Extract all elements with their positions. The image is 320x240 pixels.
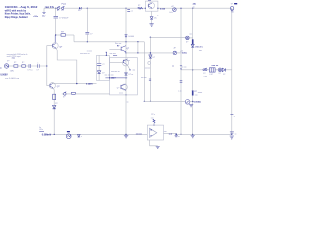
- diode D2: [53, 103, 58, 109]
- svg-text:xx xx: xx xx: [119, 93, 123, 95]
- wire Q1 base riser: [47, 46, 53, 86]
- svg-text:0.0000: 0.0000: [128, 36, 134, 38]
- svg-text:-24: -24: [180, 51, 183, 53]
- node j150-101: [150, 101, 151, 102]
- probe tick v181: [180, 66, 187, 70]
- diode D7 on rail: [78, 135, 82, 138]
- ground g-192: [191, 135, 195, 137]
- svg-text:xx: xx: [235, 134, 237, 136]
- wire Q2 emitter chain: [52, 88, 55, 134]
- node rail-spine: [125, 8, 126, 9]
- wire input: [9, 65, 14, 67]
- probe out: [175, 136, 180, 138]
- svg-text:0.000: 0.000: [160, 8, 166, 10]
- capacitor C2: [85, 8, 92, 42]
- svg-text:V?: V?: [7, 61, 9, 63]
- lamp DS2: [218, 68, 222, 75]
- svg-text:xx xxx: xx xxx: [145, 67, 150, 69]
- tick v232 mid: [230, 114, 234, 118]
- svg-text:R?: R?: [55, 103, 57, 105]
- svg-text:D?: D?: [223, 74, 225, 76]
- wire Q2 collector to bus: [52, 83, 96, 84]
- node j150-37: [150, 37, 151, 38]
- svg-text:A?: A?: [172, 5, 174, 8]
- node out-rail: [175, 133, 177, 135]
- svg-text:R?: R?: [194, 91, 196, 93]
- svg-text:D?: D?: [186, 42, 188, 44]
- meter M1: [169, 5, 176, 14]
- svg-text:C? 1u: C? 1u: [27, 70, 32, 72]
- svg-text:D? xx: D? xx: [129, 74, 134, 76]
- svg-text:1kHz: 1kHz: [10, 71, 14, 73]
- wire top rail left: [44, 7, 57, 9]
- capacitor on v181: [178, 81, 182, 93]
- svg-text:xxx: xxx: [189, 33, 192, 35]
- wire chain y70: [181, 69, 232, 71]
- svg-text:R?: R?: [138, 5, 140, 7]
- svg-text:24v: 24v: [42, 16, 46, 18]
- box U2 opamp: [147, 125, 163, 140]
- box A snubber: [97, 55, 110, 80]
- svg-text:raw 24v: raw 24v: [45, 6, 55, 9]
- svg-text:x: x: [81, 136, 82, 138]
- node emitter-join: [76, 83, 77, 84]
- svg-text:0.0x: 0.0x: [39, 129, 43, 131]
- svg-text:xx: xx: [127, 101, 129, 103]
- wire: [59, 7, 79, 9]
- svg-text:Q?: Q?: [59, 46, 63, 48]
- wire y94: [62, 93, 110, 95]
- svg-text:out: out: [169, 132, 173, 135]
- svg-text:Q? xxx: Q? xxx: [124, 60, 130, 62]
- node j192-101: [192, 101, 193, 102]
- node rail-192: [192, 8, 193, 9]
- svg-text:xx: xx: [193, 6, 195, 8]
- wire v138: [137, 42, 139, 53]
- spine capacitor C5: [127, 10, 133, 13]
- svg-text:D?: D?: [78, 10, 80, 12]
- svg-text:xxx: xxx: [133, 69, 136, 71]
- resistor R7 thick: [192, 39, 194, 44]
- svg-text:R?: R?: [14, 62, 16, 64]
- wire Q1 emitter staircase: [56, 48, 77, 84]
- svg-text:+12x: +12x: [33, 16, 39, 18]
- pin tick boxA: [106, 52, 107, 56]
- svg-text:0.648V: 0.648V: [86, 82, 93, 85]
- svg-text:Q?: Q?: [117, 87, 119, 89]
- probe right bottom: [230, 132, 237, 136]
- node rail-232: [231, 134, 232, 135]
- transistor T2 lower: [117, 84, 128, 95]
- resistor R6: [53, 94, 56, 99]
- svg-text:R?: R?: [61, 32, 63, 34]
- wire top rail mid: [81, 7, 232, 9]
- wire input stub: [0, 67, 2, 69]
- wire emitter bus y53: [126, 52, 173, 54]
- wire lamp to v192: [189, 37, 193, 39]
- svg-text:Nipey Rimpp, Suddard: Nipey Rimpp, Suddard: [5, 15, 28, 19]
- ground g-232: [230, 136, 234, 140]
- wire y101: [144, 100, 185, 102]
- relay K1: [63, 92, 66, 99]
- node signal-spine: [125, 41, 126, 42]
- svg-text:xxx xxxx xx: xxx xxxx xx: [80, 53, 90, 55]
- wire spine: [125, 8, 127, 134]
- svg-text:x.xx: x.xx: [178, 91, 181, 93]
- svg-text:xxxx: xxxx: [113, 55, 118, 57]
- node rail-Q2: [54, 134, 55, 135]
- transistor T1 upper: [110, 59, 136, 71]
- node j150-53: [150, 52, 151, 53]
- node B+: [55, 34, 56, 35]
- svg-text:R? x: R? x: [151, 114, 155, 116]
- svg-text:S?: S?: [203, 73, 205, 75]
- resistor R1: [138, 5, 143, 9]
- meter M2: [173, 47, 176, 55]
- svg-text:0.654V: 0.654V: [109, 76, 116, 79]
- box B regulator: [110, 58, 138, 95]
- svg-text:Fuse: Fuse: [62, 4, 67, 6]
- capacitor C4: [31, 63, 47, 72]
- svg-text:xxx xx: xxx xx: [212, 65, 219, 67]
- wire v144: [143, 42, 145, 102]
- svg-text:xxxxx: xxxxx: [136, 134, 143, 136]
- node spine-53: [125, 52, 126, 53]
- speaker LS1: [209, 68, 215, 76]
- svg-text:1N4148 x: 1N4148 x: [195, 46, 203, 48]
- node v181-rail-bot: [180, 134, 181, 135]
- ground g-fb: [156, 146, 160, 148]
- svg-text:xxxxx: xxxxx: [198, 92, 203, 94]
- svg-text:0.000V: 0.000V: [0, 75, 8, 77]
- labels 24v: [193, 2, 197, 8]
- source V4 on rail: [66, 131, 71, 139]
- node box-out: [157, 8, 158, 9]
- node rail-C2: [87, 8, 88, 9]
- switch S1: [57, 6, 60, 12]
- svg-text:xxx: xxx: [199, 50, 202, 52]
- svg-text:C?: C?: [131, 11, 133, 13]
- wire v192: [192, 8, 194, 134]
- svg-text:x: x: [157, 15, 158, 17]
- svg-text:xx: xx: [178, 136, 180, 138]
- resistor R4: [22, 62, 29, 67]
- svg-text:x xx: x xx: [204, 76, 207, 78]
- svg-text:xxx: xxx: [164, 131, 167, 133]
- wire v150: [149, 37, 151, 101]
- capacitor C3: [27, 64, 32, 71]
- node box-in: [145, 8, 146, 9]
- svg-text:x: x: [37, 63, 38, 65]
- AC source V2: [4, 61, 14, 73]
- wire signal long: [74, 41, 144, 43]
- node signal-C2: [87, 41, 88, 42]
- node j138-53: [137, 52, 138, 53]
- svg-text:xxx: xxx: [151, 117, 154, 119]
- svg-text:24v: 24v: [154, 17, 157, 19]
- wire feedback: [150, 140, 158, 146]
- switch S2: [203, 68, 207, 75]
- node R9-box: [153, 125, 154, 126]
- wire M2 to v181: [177, 52, 182, 54]
- svg-text:Q?: Q?: [126, 48, 130, 50]
- note text block: [7, 53, 28, 60]
- node spine-78: [125, 77, 126, 78]
- wire v232: [231, 8, 233, 134]
- node j138: [137, 41, 138, 42]
- svg-text:R?: R?: [117, 46, 119, 48]
- wire lamp y38: [150, 37, 185, 39]
- svg-text:xxx xxx xx: xxx xxx xx: [111, 71, 120, 73]
- resistor R9: [151, 114, 155, 125]
- svg-text:x: x: [234, 116, 235, 118]
- svg-text:xx: xx: [172, 65, 174, 67]
- meter M3: [185, 100, 192, 105]
- diode D4: [191, 44, 203, 52]
- svg-text:xxx: xxx: [195, 94, 198, 96]
- svg-text:LS?: LS?: [210, 74, 213, 76]
- svg-text:D?: D?: [153, 57, 155, 59]
- probe tick spine: [125, 35, 134, 38]
- capacitor C1: [54, 8, 70, 35]
- fuse F1: [62, 4, 67, 12]
- resistor R5: [72, 92, 76, 94]
- ground g192m: [189, 104, 193, 106]
- svg-text:24v: 24v: [193, 2, 197, 5]
- svg-text:rms: rms: [12, 57, 15, 59]
- svg-text:xx xxx: xx xxx: [141, 77, 147, 79]
- labels above boxes: [80, 50, 118, 56]
- transistor Q4 cluster: [109, 43, 130, 52]
- svg-text:C?: C?: [90, 34, 92, 36]
- Iq text: [39, 127, 44, 132]
- source V3 top right: [230, 3, 237, 14]
- svg-text:0.0x: 0.0x: [169, 12, 172, 14]
- resistor R8 thick: [192, 91, 202, 97]
- node j192-70: [192, 69, 193, 70]
- capacitor on v150: [149, 79, 151, 81]
- resistor R-branch: [56, 32, 74, 37]
- svg-text:xx 0.000 xx: xx 0.000 xx: [5, 78, 19, 80]
- svg-text:S?: S?: [57, 10, 59, 12]
- svg-text:x: x: [233, 12, 234, 14]
- node v181-rail-top: [180, 8, 181, 9]
- svg-text:C? 4700uF: C? 4700uF: [59, 18, 69, 20]
- svg-text:Q?: Q?: [57, 86, 61, 88]
- node rail-C1: [55, 8, 56, 9]
- diode D6: [222, 68, 225, 76]
- diode D1: [78, 7, 81, 12]
- svg-text:A?: A?: [174, 47, 176, 50]
- diode on spine: [125, 73, 134, 76]
- ground g-zener: [150, 24, 154, 26]
- node j144-101: [144, 101, 145, 102]
- regulator box B3: [145, 0, 158, 11]
- node rail-spine: [125, 134, 126, 135]
- node boxB bottom: [125, 94, 126, 95]
- svg-text:0.000A: 0.000A: [194, 100, 201, 103]
- svg-text:xx xxx: xx xxx: [181, 66, 186, 68]
- resistor R3: [14, 62, 22, 67]
- svg-text:X?: X?: [219, 73, 221, 75]
- node input-base: [46, 65, 47, 66]
- battery V1: [33, 8, 46, 18]
- svg-text:K?: K?: [63, 97, 65, 99]
- svg-text:0.00x: 0.00x: [182, 53, 188, 55]
- wire y78 dark: [105, 77, 127, 79]
- svg-text:R?: R?: [22, 62, 24, 64]
- bottom rail: [45, 133, 232, 135]
- zener D8 under box: [150, 11, 158, 23]
- ground g-spine: [124, 135, 128, 137]
- svg-text:C?: C?: [36, 69, 38, 71]
- svg-text:C?: C?: [102, 64, 104, 66]
- node rail-192: [192, 134, 193, 135]
- svg-text:V?: V?: [231, 4, 233, 6]
- lamp DS1: [186, 36, 190, 43]
- wire branch down: [73, 35, 75, 42]
- svg-text:0.000mV: 0.000mV: [42, 134, 52, 136]
- transistor Q1: [52, 35, 63, 49]
- wire output: [164, 133, 177, 136]
- title text block: [4, 5, 38, 19]
- svg-text:F?: F?: [62, 10, 64, 12]
- diode D3: [145, 55, 155, 69]
- wire v181: [180, 8, 182, 134]
- transistor Q2: [49, 83, 60, 89]
